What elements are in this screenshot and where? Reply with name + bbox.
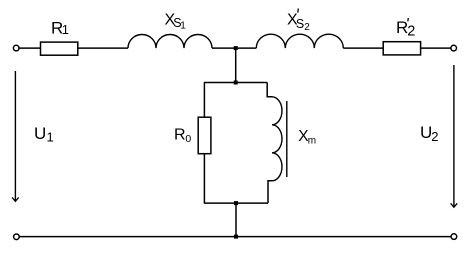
wire XS2 to R2'	[343, 47, 383, 49]
terminal bottom-right	[451, 234, 457, 240]
arrow U1 head	[12, 197, 19, 201]
wire left branch upper	[203, 83, 205, 118]
svg-text:0: 0	[185, 133, 191, 145]
svg-text:1: 1	[180, 21, 186, 32]
core line of Xm	[286, 101, 288, 177]
wire right branch upper	[267, 83, 272, 97]
wire right branch lower	[268, 181, 272, 203]
junction node top	[234, 46, 238, 50]
wire XS1 to XS2 with junction	[212, 47, 256, 49]
junction node on bottom bar	[234, 201, 238, 205]
svg-text:1: 1	[62, 22, 69, 37]
resistor R2'	[383, 42, 420, 55]
terminal top-right	[451, 45, 457, 51]
parallel block top bar	[204, 82, 267, 84]
arrow U2 line	[453, 65, 455, 207]
inductor XS2'	[256, 34, 343, 48]
wire terminal to R1	[19, 47, 40, 49]
svg-text:1: 1	[47, 129, 54, 144]
svg-text:2: 2	[407, 24, 415, 40]
arrow U2 head	[451, 203, 458, 207]
wire left branch lower	[203, 154, 205, 203]
svg-text:m: m	[308, 135, 316, 146]
inductor XS1	[128, 34, 212, 48]
svg-text:U: U	[34, 124, 46, 143]
bottom rail wire	[20, 236, 451, 238]
resistor R0	[198, 117, 211, 154]
arrow U1 line	[14, 71, 16, 201]
junction node on top bar	[234, 81, 238, 85]
svg-text:S: S	[296, 17, 304, 31]
terminal bottom-left	[14, 234, 20, 240]
terminal top-left	[13, 45, 19, 51]
inductor Xm	[272, 97, 282, 181]
resistor R1	[41, 42, 78, 55]
parallel block bottom bar	[204, 202, 268, 204]
wire middle branch vertical bottom	[235, 203, 237, 237]
svg-text:2: 2	[304, 22, 310, 33]
svg-text:2: 2	[431, 129, 438, 144]
wire R1 to XS1	[78, 47, 128, 49]
wire middle branch vertical top	[235, 48, 237, 82]
wire R2' to terminal	[421, 47, 451, 49]
svg-text:R: R	[174, 127, 186, 144]
junction node on bottom rail	[234, 235, 238, 239]
